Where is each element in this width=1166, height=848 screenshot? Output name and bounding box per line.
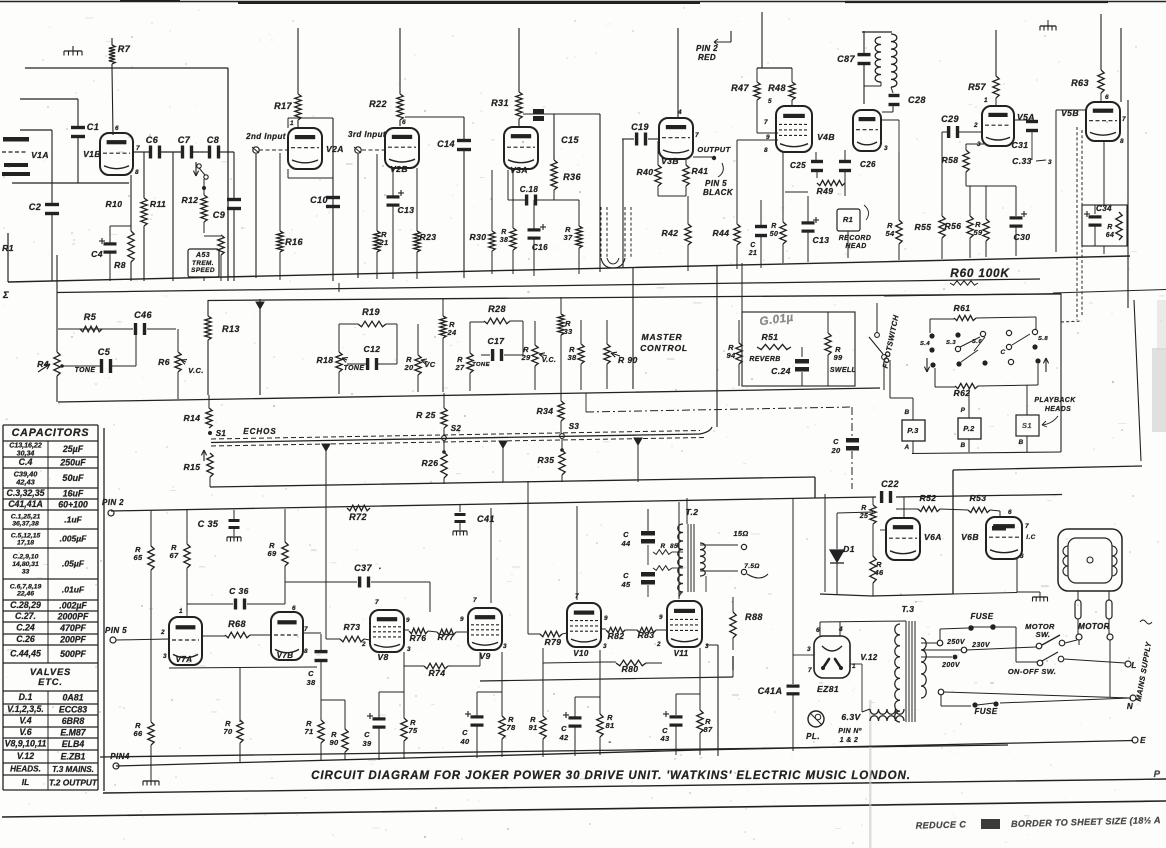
svg-text:V7B: V7B [277,651,294,660]
svg-text:R74: R74 [429,668,446,678]
svg-text:P.2: P.2 [963,424,975,433]
svg-text:R57: R57 [968,82,986,92]
svg-text:V4B: V4B [817,132,835,142]
svg-text:V6B: V6B [961,532,979,542]
resistor R36 [551,160,557,190]
master control drop [632,267,634,389]
svg-text:C29: C29 [941,114,959,124]
svg-text:C.6,7,8,19: C.6,7,8,19 [10,583,42,590]
svg-text:PIN4: PIN4 [110,752,130,761]
resistor R49 horizontal [817,180,845,185]
capacitor C16 electrolytic [533,200,535,229]
valve V12 EZ81 rectifier [814,636,850,678]
capacitor C13b electrolytic [807,196,809,222]
pot R20 [417,324,419,355]
svg-text:C.24: C.24 [771,366,791,376]
svg-text:R 90: R 90 [618,355,638,365]
resistor R16 [277,231,283,252]
resistor R42 [687,196,689,224]
svg-text:OUTPUT: OUTPUT [697,145,731,154]
resistor R56 [969,186,971,216]
wire right drop from top wire [227,68,229,281]
svg-text:3: 3 [1020,553,1024,560]
capacitor C35 with ground [233,510,235,519]
title block bottom line [103,779,1166,793]
svg-text:R63: R63 [1071,78,1089,88]
svg-text:.005µF: .005µF [60,534,88,544]
resistor R52 horizontal [896,508,918,510]
resistor R90b [344,700,346,729]
svg-text:R30: R30 [470,232,487,242]
svg-text:R 25: R 25 [416,410,436,420]
svg-text:6: 6 [816,627,820,634]
tone section bottom rail [58,388,880,402]
svg-text:78: 78 [506,723,516,732]
svg-text:R60 100K: R60 100K [950,267,1010,280]
capacitor C9 [233,152,235,198]
svg-text:25: 25 [859,513,869,520]
resistor R11 [143,152,145,198]
svg-text:3: 3 [407,646,411,653]
right feed line to motor section [953,466,1142,470]
svg-text:V2A: V2A [326,144,344,154]
svg-text:R5: R5 [84,312,97,322]
svg-text:14,80,31: 14,80,31 [12,561,39,568]
svg-text:PIN 2: PIN 2 [102,498,124,507]
svg-text:R76: R76 [410,633,427,643]
playback head P3 [902,420,925,441]
svg-text:3: 3 [1048,159,1052,166]
svg-text:C28: C28 [908,95,926,105]
svg-text:6: 6 [292,605,296,612]
svg-text:17,18: 17,18 [17,540,34,547]
svg-text:S.4: S.4 [920,341,930,347]
svg-text:R56: R56 [945,221,962,231]
svg-text:C.24: C.24 [16,623,35,633]
svg-text:3: 3 [603,643,607,650]
resistor R63 [1100,14,1102,70]
svg-text:C34: C34 [1096,204,1112,213]
valve V4 pentode section [776,106,812,152]
terminal S1 [208,431,212,435]
svg-text:SWELL: SWELL [830,367,856,374]
svg-text:R31: R31 [491,98,509,108]
valve V2A [288,128,322,169]
capacitor C21 [760,200,762,226]
capacitor C36 row [187,603,233,605]
switch contacts row1 [929,333,934,338]
resistor R76 [404,629,409,631]
svg-text:C.26: C.26 [16,634,35,644]
svg-text:V.12: V.12 [17,751,34,761]
svg-text:ECHOS: ECHOS [243,427,277,436]
svg-text:V.4: V.4 [19,716,31,726]
svg-text:V.6: V.6 [19,727,31,737]
svg-text:C37: C37 [354,563,372,573]
resistor R72 on HT rail [347,505,370,511]
svg-text:R28: R28 [488,304,506,314]
svg-text:V.12: V.12 [860,653,877,662]
svg-text:R49: R49 [817,186,834,196]
resistor R50 [782,152,784,222]
svg-text:B: B [960,442,965,449]
pot R6 [177,329,179,352]
scan top edge broken line [0,1,1166,3]
svg-text:230V: 230V [971,642,991,649]
capacitor C37 row [300,581,357,583]
svg-text:C.33: C.33 [1012,156,1032,166]
pot R38b [580,320,582,344]
svg-text:R52: R52 [920,493,937,503]
svg-text:C16: C16 [532,243,548,252]
resistor R13 [207,300,209,316]
second rail below bus [57,279,1040,293]
svg-text:39: 39 [362,739,372,748]
PIN4 / earth long rail [116,750,700,766]
svg-text:4: 4 [838,626,843,633]
svg-text:6: 6 [115,125,119,132]
svg-text:C5: C5 [98,347,111,357]
svg-text:R47: R47 [731,83,749,93]
svg-text:7: 7 [808,667,812,674]
svg-text:E.M87: E.M87 [60,728,86,738]
svg-text:6: 6 [1105,94,1109,101]
resistor R78 [501,652,503,716]
svg-text:R80: R80 [622,664,639,674]
svg-text:C: C [462,728,468,737]
svg-text:C19: C19 [631,122,649,132]
svg-text:22,46: 22,46 [16,591,34,598]
svg-text:R73: R73 [344,622,361,632]
svg-text:·: · [378,563,381,573]
svg-text:V.C.: V.C. [188,366,203,375]
resistor R44 [736,140,738,224]
bottom sheet border line [2,801,1166,817]
valve V6B [986,517,1022,559]
terminal PIN5 [110,637,116,643]
svg-text:C.4: C.4 [19,457,33,467]
resistor R26 [442,450,446,454]
svg-text:G.01µ: G.01µ [759,311,795,329]
svg-text:R19: R19 [362,307,380,317]
svg-text:BLACK: BLACK [703,188,734,197]
svg-text:R72: R72 [349,512,367,522]
drop with arrow at 260 [259,299,261,395]
svg-text:C7: C7 [178,135,191,145]
svg-text:R13: R13 [222,324,240,334]
resistor R48 [791,68,793,82]
R80 rail left extension [543,662,603,663]
svg-text:RECORD: RECORD [839,235,871,242]
svg-text:R88: R88 [745,612,763,622]
svg-text:500PF: 500PF [60,649,86,659]
svg-text:N: N [1127,702,1133,711]
capacitor C38 [320,634,322,650]
valve V4 triode section [853,110,881,151]
svg-text:87: 87 [703,725,713,734]
switch contacts row3 [930,362,935,367]
EZ81 side leads [800,654,814,656]
svg-text:R34: R34 [537,406,554,416]
svg-text:ETC.: ETC. [38,676,63,687]
svg-text:V.C.: V.C. [542,357,556,364]
wire motor drop to N [1109,640,1111,697]
svg-text:A: A [903,444,909,451]
svg-text:64: 64 [1106,232,1115,239]
resistor R57 [995,30,997,76]
resistor R47 [756,68,758,82]
svg-text:PLAYBACK: PLAYBACK [1034,397,1076,404]
svg-text:R26: R26 [422,458,439,468]
svg-text:P: P [961,407,966,414]
resistor R58 [965,144,967,150]
wire C38 to R90 row [321,699,345,701]
echo cable dashed verticals [600,207,602,258]
svg-text:C46: C46 [134,310,152,320]
ground G1 top left [64,50,82,52]
pot R4 vertical with wiper [56,255,58,352]
svg-text:3: 3 [705,643,709,650]
svg-text:R: R [1107,224,1112,231]
HT feed line (PIN2 rail) [111,498,815,511]
svg-text:CONTROL: CONTROL [640,343,688,353]
capacitor C4 electrolytic [110,225,131,227]
svg-text:TREM.: TREM. [192,260,214,267]
svg-text:R51: R51 [762,332,779,342]
svg-text:C: C [750,242,756,249]
svg-text:S.3: S.3 [946,340,956,346]
component table frame [3,424,98,426]
svg-text:9: 9 [766,134,770,141]
svg-text:.01uF: .01uF [62,585,85,595]
svg-text:C1: C1 [87,122,99,132]
playback dashed cable from V5B [1076,127,1078,320]
schematic left border [103,428,105,791]
valve V1B [100,133,133,175]
capacitor C29 [942,131,947,133]
svg-text:R77: R77 [438,632,456,642]
valve V5B [1086,102,1120,141]
wire 3rd jack drop [357,154,359,278]
V7 underline box [169,667,317,668]
resistor R69 [284,509,286,542]
svg-text:3: 3 [163,653,167,660]
svg-text:R83: R83 [638,630,655,640]
capacitor C26 [844,150,846,160]
capacitor C41 with ground [459,505,461,512]
motor leads and capacitors [1077,591,1079,600]
svg-text:44: 44 [620,539,631,548]
echo bus dashed pair [211,431,700,440]
svg-text:C: C [364,730,370,739]
svg-text:BORDER TO SHEET SIZE (18½ A: BORDER TO SHEET SIZE (18½ A [1011,815,1161,829]
fuse top [939,629,941,640]
svg-text:7: 7 [473,597,477,604]
capacitor C7 [181,146,184,159]
valve V3A [504,127,538,169]
svg-text:3rd Input: 3rd Input [348,130,386,139]
capacitor C12 [347,363,366,365]
capacitor C31 [1014,119,1032,121]
feeder drop right of T2 [792,498,794,684]
svg-text:21: 21 [748,250,758,257]
svg-text:2: 2 [361,641,366,648]
capacitor C18 [508,199,525,201]
svg-text:C6: C6 [146,135,159,145]
svg-text:C.18: C.18 [520,185,539,194]
svg-text:B: B [904,409,909,416]
pilot lamp PL [808,711,824,727]
resistor R7 [111,38,113,45]
ground top right [1040,25,1056,27]
svg-text:C4: C4 [91,249,103,259]
svg-text:P: P [1154,769,1161,780]
valve V11 pentode [667,601,702,647]
valve V1A (partial at edge) [3,137,29,142]
svg-text:C13: C13 [813,235,830,245]
capacitor C17 [481,354,490,356]
svg-text:R61: R61 [954,303,971,313]
svg-text:6.3V: 6.3V [841,712,861,722]
svg-text:C8: C8 [207,135,220,145]
resistor R81 [599,650,601,714]
resistor R74 row [404,665,424,667]
capacitor C25 [815,152,817,160]
svg-text:R1: R1 [843,215,853,224]
svg-text:6: 6 [1008,509,1012,516]
svg-text:V1A: V1A [31,150,49,160]
svg-text:FUSE: FUSE [975,707,998,716]
svg-text:SW.: SW. [1036,630,1051,639]
motor body [1058,529,1122,591]
svg-text:16uF: 16uF [63,489,84,499]
resistor R87 [699,648,701,710]
erase head coil [862,31,892,33]
main HT bus (top section bottom rail) [8,256,1130,282]
resistor R88 [732,597,734,612]
resistor R73 [326,638,340,640]
svg-text:R: R [771,223,776,230]
svg-text:7: 7 [304,626,308,633]
svg-text:C.28,29: C.28,29 [10,600,41,610]
resistor R62 row [935,386,955,388]
svg-text:R18: R18 [317,355,334,365]
echo bus taps [322,444,330,451]
capacitor C43 [675,694,677,715]
left border stub top section [7,233,9,282]
svg-text:TONE: TONE [344,365,365,372]
capacitor C39 [378,692,380,718]
resistor R12 partner zigzag [218,235,224,255]
wire top-left horizontal [25,67,228,69]
reverb box [741,263,743,312]
svg-text:EZ81: EZ81 [817,684,839,694]
svg-text:C87: C87 [837,54,855,64]
svg-text:R82: R82 [608,631,625,641]
resistor R77 [428,631,437,632]
resistor R14 [208,395,210,408]
svg-text:8: 8 [1120,138,1124,145]
resistor R12 [201,195,207,222]
output jack block 15ohm [700,544,738,546]
svg-text:69: 69 [267,549,277,558]
svg-text:42,43: 42,43 [15,477,35,486]
svg-text:7: 7 [1025,523,1029,530]
svg-text:R40: R40 [637,167,654,177]
wire second horizontal [20,98,78,100]
resistor R65 [150,511,152,546]
svg-text:PIN 5: PIN 5 [705,179,727,188]
svg-text:C 36: C 36 [229,586,249,596]
wire V5A cathode [966,143,984,145]
svg-text:C41A: C41A [758,686,783,696]
svg-text:R79: R79 [545,637,562,647]
svg-text:C41,41A: C41,41A [8,499,43,509]
capacitor C10 [326,196,340,199]
svg-text:90: 90 [329,738,339,747]
svg-text:PIN 2: PIN 2 [696,44,718,53]
svg-text:1: 1 [984,97,988,104]
svg-text:54: 54 [885,229,895,238]
svg-text:CAPACITORS: CAPACITORS [12,427,90,439]
svg-text:REVERB: REVERB [749,356,780,363]
svg-text:C14: C14 [437,139,455,149]
svg-text:P.3: P.3 [907,426,919,435]
svg-text:99: 99 [833,353,843,362]
wire V4 screen row [785,191,808,193]
svg-text:B: B [1018,439,1023,446]
tone section top rail [208,294,1061,301]
resistor R40 [657,141,659,165]
svg-text:91: 91 [528,723,537,732]
up down arrows [926,358,928,372]
capacitor dark blob at V3A anode [533,109,544,114]
capacitor C28 [889,94,900,97]
wire jack drop [255,154,257,278]
pot R99 swell [827,312,829,333]
svg-text:V8: V8 [377,652,388,662]
V6 section bottom line extension [820,594,872,596]
svg-text:V3B: V3B [661,156,679,166]
svg-text:1: 1 [179,608,183,615]
svg-text:C.5,12,15: C.5,12,15 [11,532,41,539]
capacitor C42 [574,697,576,717]
svg-text:20: 20 [403,363,414,372]
svg-text:C17: C17 [488,336,506,346]
valve V7B [271,612,303,660]
svg-text:V1B: V1B [83,149,101,159]
svg-text:PIN 5: PIN 5 [105,626,127,635]
resistor R68 grid row [202,635,225,637]
svg-text:67: 67 [169,551,179,560]
svg-text:S.8: S.8 [1038,336,1048,342]
svg-text:V10: V10 [573,649,589,658]
svg-text:PIN Nº: PIN Nº [838,728,862,735]
record head box R1 [837,209,860,231]
resistor R75 [403,652,405,718]
svg-text:2: 2 [160,629,165,636]
resistor R41 [685,160,687,165]
resistor R64 [1116,212,1122,240]
svg-text:C22: C22 [881,479,899,489]
svg-text:C: C [308,669,314,678]
capacitor C6 [149,146,152,159]
pot R29 [534,321,536,345]
svg-text:C10: C10 [310,195,328,205]
reverb feed vertical [716,265,718,427]
dash-dot line to C20 [586,407,852,412]
svg-text:R22: R22 [369,99,387,109]
